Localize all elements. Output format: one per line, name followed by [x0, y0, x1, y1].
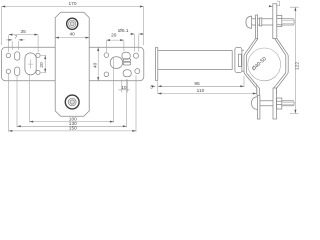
- svg-text:7: 7: [15, 35, 18, 41]
- bottom bolt head circles: [65, 95, 79, 109]
- svg-text:170: 170: [68, 1, 76, 7]
- circle O5.1: [133, 53, 138, 58]
- dim 100: [30, 121, 114, 123]
- thread lines bottom: [282, 102, 293, 104]
- dim 20 right: [106, 40, 124, 52]
- svg-text:110: 110: [197, 88, 205, 94]
- dim 7: [6, 40, 25, 50]
- standoff tube: [158, 50, 232, 69]
- svg-text:150: 150: [69, 126, 77, 132]
- central rounded slot: [110, 57, 122, 69]
- link lines flange to clamp: [242, 50, 244, 71]
- dim 130: [17, 125, 127, 127]
- shaft: [252, 19, 295, 25]
- clamp band left half outer: [244, 39, 257, 96]
- dome head: [252, 97, 258, 110]
- dim 35: [9, 35, 38, 52]
- svg-text:3: 3: [150, 84, 153, 90]
- small slot bottom: [15, 67, 20, 76]
- svg-text:40: 40: [92, 62, 98, 68]
- top bolt head circles: [67, 18, 78, 29]
- cluster hole B: [123, 70, 131, 77]
- svg-text:35: 35: [21, 29, 27, 35]
- dim 110: [158, 82, 257, 95]
- dim 3: [152, 85, 156, 87]
- svg-text:95: 95: [194, 81, 200, 87]
- svg-text:20: 20: [39, 62, 45, 68]
- svg-text:122: 122: [294, 62, 300, 70]
- svg-text:Ø5.1: Ø5.1: [118, 28, 129, 34]
- cluster hole A: [122, 52, 130, 59]
- far right circle bottom: [135, 69, 140, 74]
- large slot: [25, 53, 36, 75]
- cluster bar 2: [123, 62, 131, 65]
- strap2 bottom flange: [273, 88, 276, 119]
- circle bottom: [104, 72, 109, 77]
- dim 40 top (tab width): [55, 37, 89, 39]
- pipe circle: [248, 48, 281, 81]
- center band with top and bottom tabs: [55, 12, 89, 116]
- small slot top: [15, 52, 20, 61]
- cluster bar 1: [123, 59, 131, 62]
- circle top: [104, 53, 109, 58]
- dim 20 vertical left: [41, 55, 46, 72]
- strap2 top (outer): [273, 4, 277, 39]
- wall plate edge bar: [155, 47, 157, 81]
- bottom dims extension lines: [9, 58, 136, 132]
- flange nut: [238, 54, 241, 66]
- strap1 bottom flange: [257, 95, 260, 119]
- slot centerlines: [28, 60, 33, 69]
- dim 10 bottom: [119, 80, 130, 93]
- svg-text:10: 10: [121, 85, 127, 91]
- clamp band right half inner: [274, 39, 286, 95]
- wall plate outline: [2, 47, 144, 81]
- clamp band left half inner: [246, 39, 259, 96]
- small circle bottom-left: [6, 69, 10, 73]
- dim 150: [9, 130, 136, 132]
- small circle mid bottom: [36, 70, 40, 74]
- dim Ø5.1: [130, 34, 144, 52]
- clamp band right half outer: [276, 39, 288, 95]
- svg-text:20: 20: [111, 33, 117, 39]
- nut bottom: [277, 98, 282, 109]
- washer top: [260, 18, 262, 26]
- shaft: [257, 101, 294, 106]
- nut top: [277, 15, 282, 26]
- thread lines top: [282, 20, 293, 23]
- dim 40 vertical (plate height): [97, 47, 99, 81]
- small circle mid top: [36, 53, 40, 57]
- dome head: [246, 16, 252, 28]
- dim 95: [158, 76, 244, 87]
- tube end flange: [235, 48, 242, 73]
- small circle top-left: [6, 53, 10, 57]
- strap thickness arrow: [269, 5, 273, 7]
- top curl leader: [277, 1, 280, 6]
- dim 170: [2, 7, 144, 46]
- svg-text:40: 40: [70, 31, 76, 37]
- strap1 top: [256, 15, 258, 39]
- dim 122: [290, 7, 299, 113]
